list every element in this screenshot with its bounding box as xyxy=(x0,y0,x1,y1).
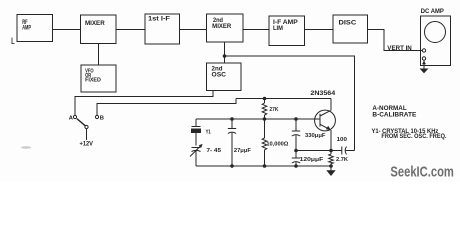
svg-text:B: B xyxy=(100,115,104,121)
scope DC AMP xyxy=(421,8,451,65)
terminal ground on scope xyxy=(422,57,425,60)
trimmer capacitor 7-45 xyxy=(190,144,222,166)
block VFO OR FIXED xyxy=(81,65,116,92)
switch arm xyxy=(77,119,86,126)
svg-text:AMP: AMP xyxy=(22,25,31,31)
switch terminal B xyxy=(95,115,98,118)
node ground rail / 2.7K xyxy=(329,164,333,168)
capacitor 330uuF xyxy=(292,119,326,151)
transistor 2N3564 xyxy=(310,91,336,131)
wire RF AMP to MIXER xyxy=(53,29,81,31)
node injection junction xyxy=(223,54,227,58)
ground symbol xyxy=(326,166,335,176)
block 2nd MIXER xyxy=(207,14,244,42)
node ground rail / 120pF xyxy=(294,164,298,168)
node ground rail / 27pF xyxy=(230,164,234,168)
svg-text:120μμF: 120μμF xyxy=(300,157,324,163)
block I-F AMP LIM xyxy=(269,16,305,46)
svg-text:Y1: Y1 xyxy=(206,129,212,135)
scan artifact tick near RF AMP xyxy=(12,38,15,44)
capacitor 100 output xyxy=(337,137,355,154)
svg-text:10,000Ω: 10,000Ω xyxy=(266,141,288,147)
wire 1st I-F to 2nd MIXER xyxy=(180,29,207,31)
svg-text:27K: 27K xyxy=(269,107,279,113)
capacitor 120uuF xyxy=(292,151,324,167)
wire DISC to scope VERT IN xyxy=(368,30,423,51)
emitter rail xyxy=(296,150,341,152)
node base rail / 330pF xyxy=(294,117,298,121)
svg-text:OSC: OSC xyxy=(212,73,227,79)
node emitter rail / 330pF xyxy=(294,149,298,153)
block DISC xyxy=(333,15,368,43)
svg-text:2N3564: 2N3564 xyxy=(310,91,336,97)
resistor 27K xyxy=(262,99,279,120)
svg-text:DC AMP: DC AMP xyxy=(421,8,445,15)
node base rail / 27K bottom xyxy=(263,117,267,121)
wire emitter down xyxy=(330,130,332,151)
wire MIXER to 1st I-F xyxy=(116,29,145,31)
svg-text:330μμF: 330μμF xyxy=(305,133,326,139)
svg-text:7- 45: 7- 45 xyxy=(207,148,222,154)
switch pole xyxy=(85,125,88,128)
wire injection line to oscillator output xyxy=(225,56,355,151)
block 2nd OSC xyxy=(207,63,242,91)
block 1st I-F xyxy=(145,14,180,44)
wire collector to top rail xyxy=(330,99,332,111)
svg-text:A-NORMAL: A-NORMAL xyxy=(372,106,407,112)
wire switch terminal B to +12V rail xyxy=(97,99,236,116)
scope ground symbol xyxy=(420,60,429,73)
svg-text:FIXED: FIXED xyxy=(85,77,101,83)
svg-text:100: 100 xyxy=(337,137,347,143)
switch terminal A xyxy=(73,115,76,118)
wire 2nd MIXER to I-F AMP LIM xyxy=(243,29,269,31)
svg-text:+12V: +12V xyxy=(80,142,94,148)
node ground rail / 10,000 ohm xyxy=(263,164,267,168)
node base rail / 27pF xyxy=(230,117,234,121)
svg-text:FROM SEC. OSC. FREQ.: FROM SEC. OSC. FREQ. xyxy=(381,134,446,140)
node top rail / 27K xyxy=(263,97,267,101)
resistor 10,000 ohm xyxy=(262,119,289,166)
block RF AMP xyxy=(17,15,53,42)
wire 2nd MIXER to 2nd OSC xyxy=(224,42,226,63)
svg-text:MIXER: MIXER xyxy=(212,24,232,30)
wire pole to +12V xyxy=(86,129,88,140)
node emitter junction xyxy=(329,149,333,153)
wire 2nd OSC to switch terminal A xyxy=(75,91,213,116)
crystal Y1 xyxy=(191,119,211,146)
smudge artifact xyxy=(21,146,31,148)
resistor 2.7K xyxy=(329,151,349,167)
svg-text:2.7K: 2.7K xyxy=(336,157,349,163)
block MIXER xyxy=(81,15,117,44)
svg-text:MIXER: MIXER xyxy=(85,21,105,27)
svg-text:LIM: LIM xyxy=(273,26,283,32)
svg-text:DISC: DISC xyxy=(339,21,358,27)
svg-text:27μμF: 27μμF xyxy=(234,148,251,154)
svg-text:B-CALIBRATE: B-CALIBRATE xyxy=(372,113,416,119)
base rail xyxy=(196,118,320,120)
capacitor 27uuF xyxy=(228,119,252,166)
svg-text:1st I-F: 1st I-F xyxy=(148,17,170,23)
top rail +12V (B) to collector xyxy=(236,98,331,100)
svg-text:VERT IN: VERT IN xyxy=(387,46,412,52)
wire MIXER to VFO xyxy=(98,44,100,66)
ground rail xyxy=(196,165,331,167)
terminal VERT IN on scope xyxy=(422,49,425,52)
wire I-F AMP LIM to DISC xyxy=(305,29,334,31)
svg-text:SeekIC.com: SeekIC.com xyxy=(390,164,454,181)
